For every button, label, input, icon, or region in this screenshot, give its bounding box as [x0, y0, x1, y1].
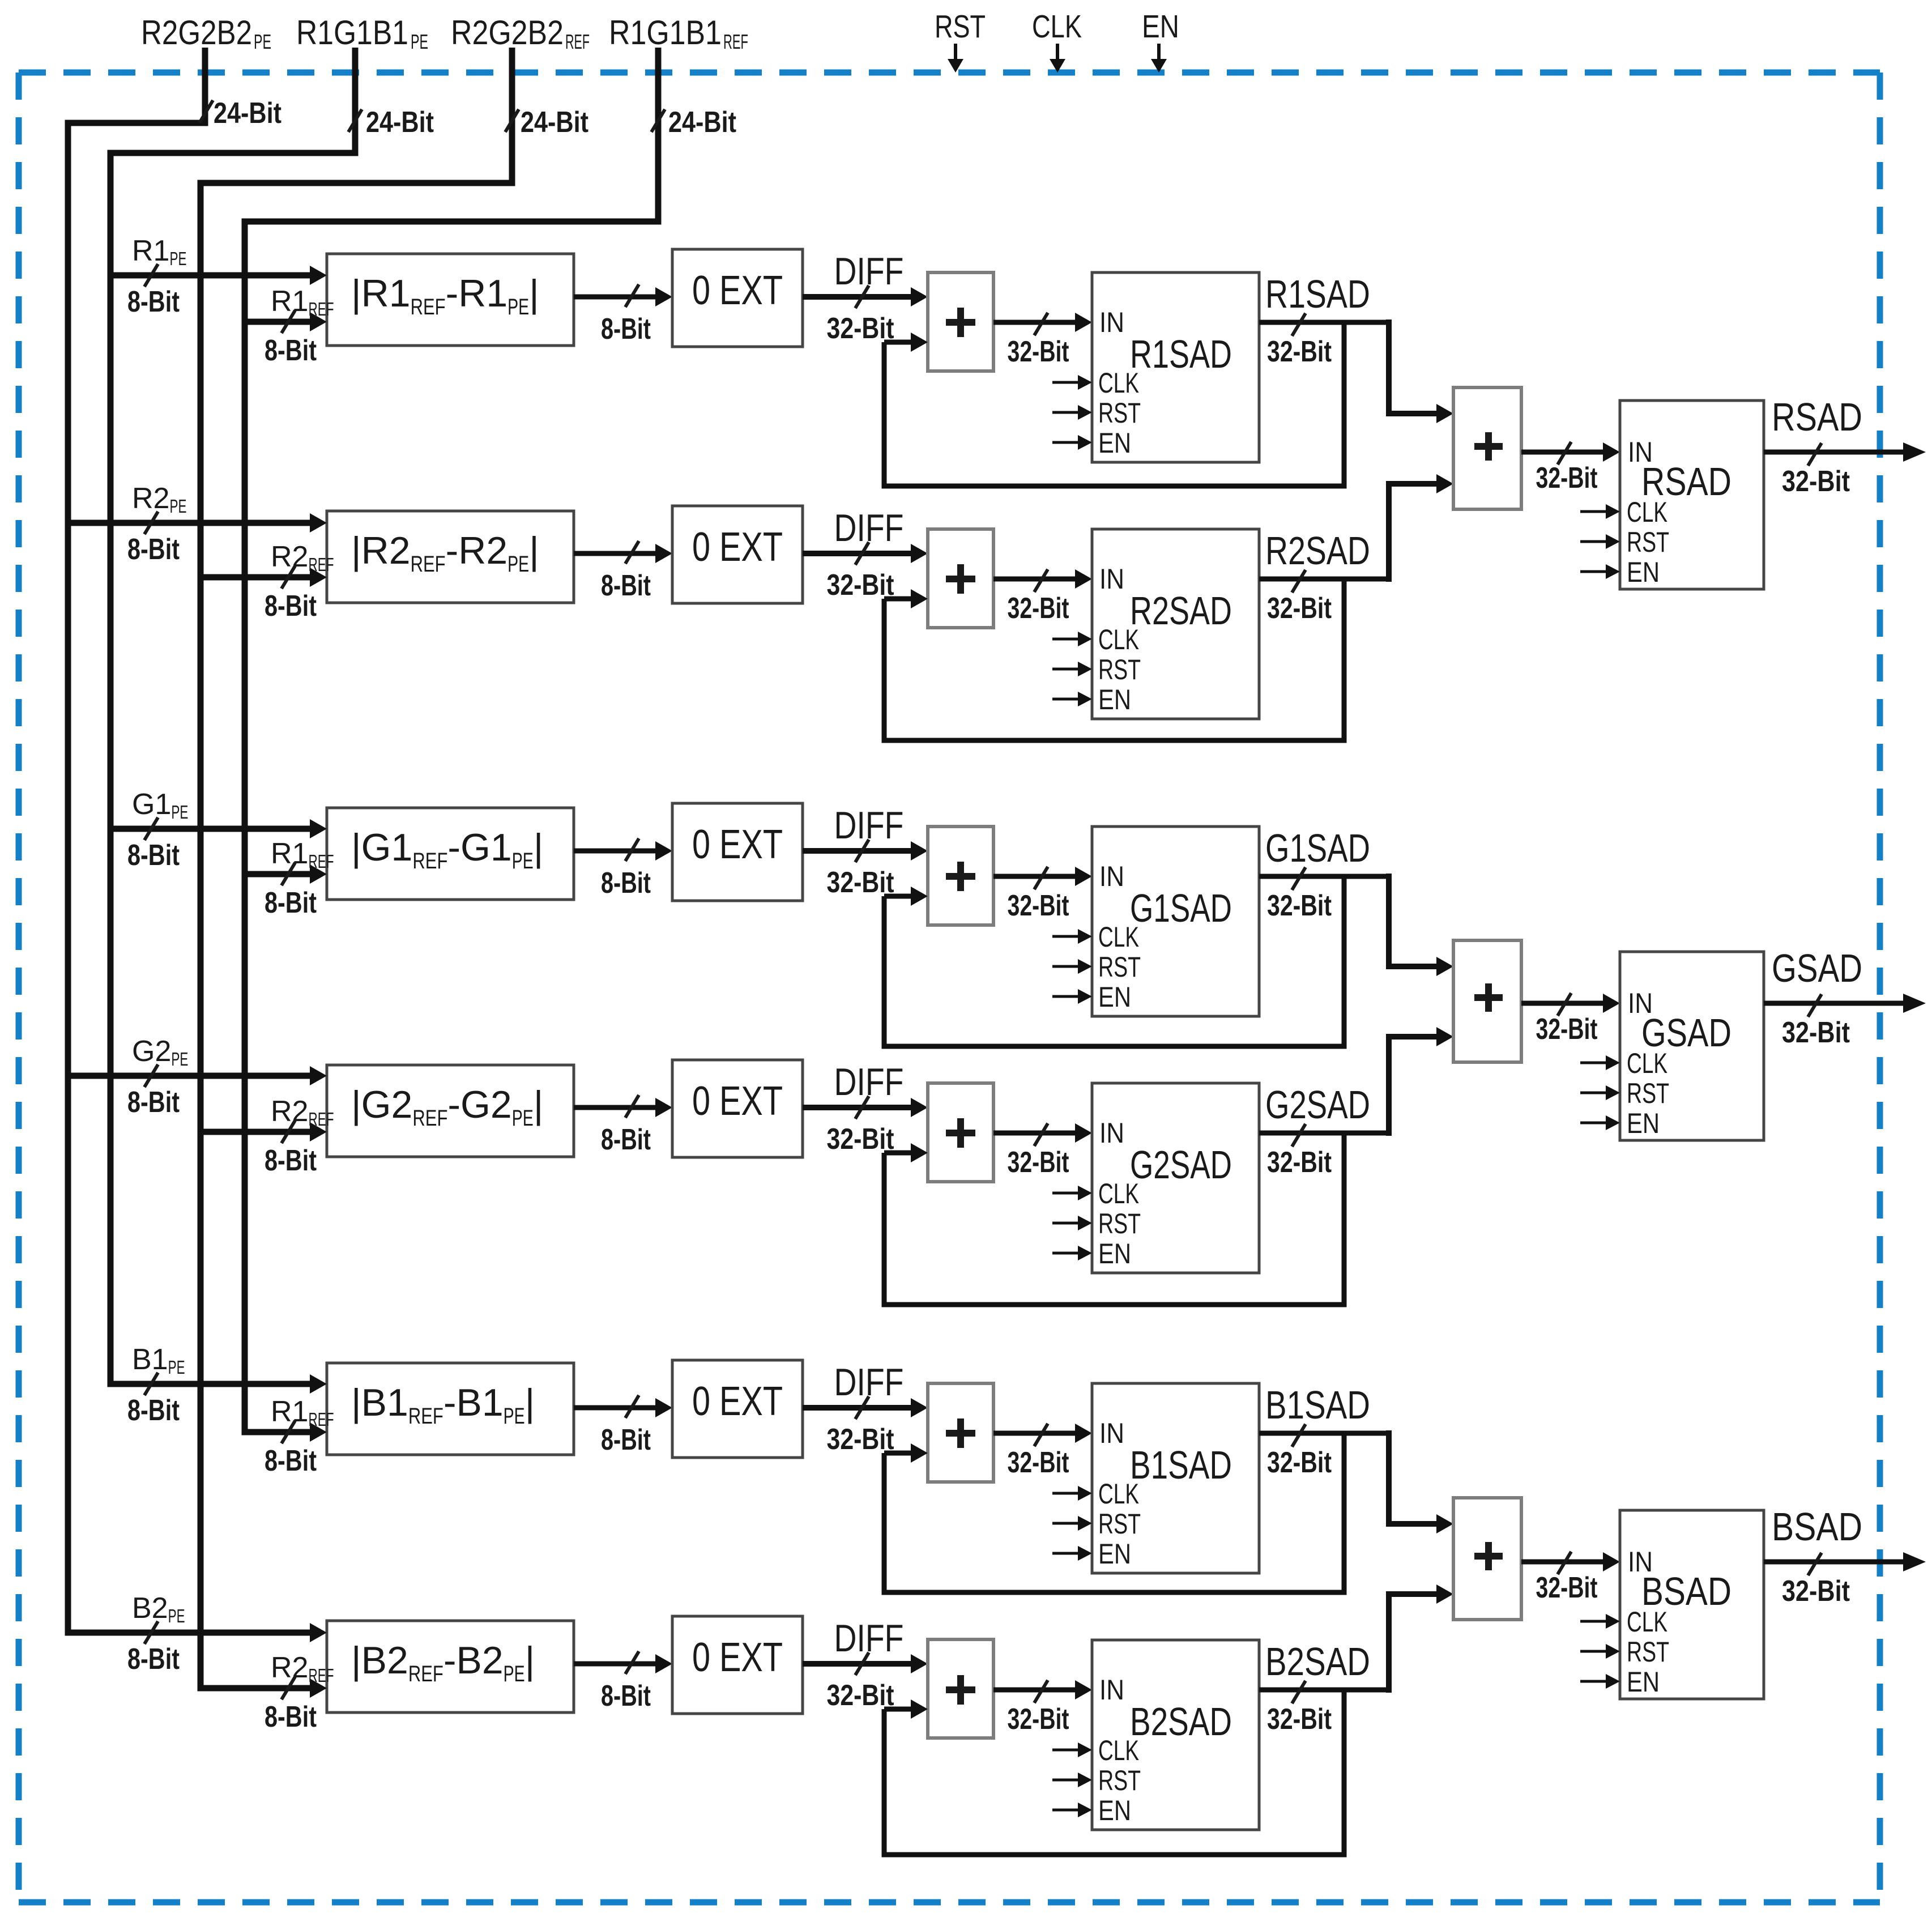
adder + (R1 accumulate): [928, 272, 993, 371]
register block GSAD final accumulator: [1620, 952, 1764, 1140]
label R2REF 8-Bit: [265, 540, 334, 623]
wire CLK stub into RSAD: [1580, 504, 1620, 519]
svg-text:EN: EN: [1098, 684, 1131, 715]
wire R2SAD output 32-Bit: [1259, 529, 1392, 625]
svg-text:24-Bit: 24-Bit: [521, 106, 588, 139]
label B2PE 8-Bit: [127, 1592, 185, 1676]
svg-text:32-Bit: 32-Bit: [1267, 889, 1332, 922]
wire RST stub into R1SAD: [1052, 405, 1092, 420]
label R2PE 8-Bit: [127, 482, 186, 566]
svg-text:IN: IN: [1099, 563, 1124, 595]
svg-text:EN: EN: [1627, 1107, 1660, 1139]
wire R1REF from bus column to |G1REF-G1PE|: [242, 864, 327, 884]
svg-text:8-Bit: 8-Bit: [265, 1701, 317, 1733]
wire RST stub into B1SAD: [1052, 1516, 1092, 1531]
register block R1SAD accumulator: [1092, 272, 1259, 462]
wire bus R1G1B1REF entry (vertical drop, turn left, column down): [242, 48, 662, 1432]
svg-text:8-Bit: 8-Bit: [265, 1144, 317, 1177]
control input CLK: [1032, 8, 1082, 73]
svg-text:0 EXT: 0 EXT: [692, 1635, 783, 1680]
wire B2 difference 8-Bit to 0 EXT: [574, 1651, 672, 1712]
svg-text:8-Bit: 8-Bit: [601, 313, 651, 346]
svg-text:R1G1B1: R1G1B1: [609, 14, 722, 52]
svg-text:RST: RST: [1098, 397, 1141, 429]
svg-text:RST: RST: [1098, 951, 1141, 983]
wire DIFF (B1) 32-Bit to adder: [803, 1361, 928, 1456]
wire G1SAD to GSAD adder: [1386, 874, 1453, 976]
svg-text:RST: RST: [1098, 654, 1141, 685]
wire adder sum to B2SAD IN 32-Bit: [993, 1680, 1092, 1736]
block |G2REF-G2PE| absolute difference: [327, 1065, 574, 1157]
control input RST: [935, 8, 986, 73]
svg-text:8-Bit: 8-Bit: [265, 590, 317, 623]
label R1PE 8-Bit: [127, 235, 186, 318]
wire RST stub into GSAD: [1580, 1085, 1620, 1100]
block 0 EXT (B2 zero extend): [672, 1616, 803, 1714]
wire CLK stub into GSAD: [1580, 1055, 1620, 1070]
bus width tick and label 24-Bit (R2G2B2REF): [505, 106, 588, 139]
svg-text:EN: EN: [1098, 1795, 1131, 1826]
svg-text:REF: REF: [723, 30, 748, 53]
wire G1SAD output 32-Bit: [1259, 826, 1392, 922]
wire CLK stub into G2SAD: [1052, 1186, 1092, 1200]
svg-text:G2SAD: G2SAD: [1130, 1143, 1232, 1187]
svg-text:CLK: CLK: [1032, 8, 1082, 45]
register block BSAD final accumulator: [1620, 1510, 1764, 1699]
adder + (G1 accumulate): [928, 827, 993, 925]
wire bus R2G2B2PE entry (vertical drop, turn left, column down): [65, 48, 208, 1633]
svg-text:32-Bit: 32-Bit: [827, 1679, 894, 1712]
svg-text:RST: RST: [1098, 1508, 1141, 1540]
svg-text:32-Bit: 32-Bit: [1008, 1446, 1069, 1479]
svg-text:8-Bit: 8-Bit: [601, 867, 651, 900]
wire G1 difference 8-Bit to 0 EXT: [574, 838, 672, 900]
svg-text:32-Bit: 32-Bit: [1008, 1703, 1069, 1736]
svg-text:IN: IN: [1099, 1417, 1124, 1449]
block 0 EXT (G2 zero extend): [672, 1060, 803, 1157]
svg-text:PE: PE: [254, 30, 271, 53]
wire R2SAD to RSAD adder: [1386, 474, 1453, 582]
svg-text:RST: RST: [935, 8, 986, 45]
svg-text:CLK: CLK: [1627, 1606, 1667, 1638]
svg-text:24-Bit: 24-Bit: [668, 106, 736, 139]
svg-text:8-Bit: 8-Bit: [127, 533, 180, 566]
block 0 EXT (B1 zero extend): [672, 1360, 803, 1458]
register block G1SAD accumulator: [1092, 827, 1259, 1016]
svg-text:32-Bit: 32-Bit: [1267, 592, 1332, 625]
svg-text:0 EXT: 0 EXT: [692, 268, 783, 313]
bus width tick and label 24-Bit (R1G1B1PE): [348, 106, 434, 139]
wire CLK stub into B2SAD: [1052, 1743, 1092, 1757]
label G1PE 8-Bit: [127, 788, 188, 872]
label R1REF 8-Bit: [265, 1395, 334, 1477]
wire adder sum to G1SAD IN 32-Bit: [993, 867, 1092, 922]
wire adder sum to G2SAD IN 32-Bit: [993, 1123, 1092, 1179]
wire R1SAD output 32-Bit: [1259, 272, 1392, 368]
block |B2REF-B2PE| absolute difference: [327, 1621, 574, 1712]
wire G2SAD feedback loop to adder: [882, 1133, 1347, 1307]
wire RST stub into G2SAD: [1052, 1216, 1092, 1230]
adder + (BSAD combine): [1453, 1498, 1521, 1620]
block |R2REF-R2PE| absolute difference: [327, 511, 574, 603]
wire adder sum to B1SAD IN 32-Bit: [993, 1424, 1092, 1479]
svg-text:32-Bit: 32-Bit: [1536, 462, 1598, 495]
wire G2 difference 8-Bit to 0 EXT: [574, 1095, 672, 1156]
svg-text:8-Bit: 8-Bit: [265, 1445, 317, 1477]
wire B2SAD output 32-Bit: [1259, 1639, 1392, 1736]
wire B2SAD to BSAD adder: [1386, 1584, 1453, 1693]
wire R2REF from bus column to |B2REF-B2PE|: [198, 1679, 327, 1698]
wire RST stub into B2SAD: [1052, 1773, 1092, 1787]
wire R1SAD to RSAD adder: [1386, 320, 1453, 423]
svg-text:32-Bit: 32-Bit: [1782, 465, 1850, 498]
wire G2PE from bus column to |G2REF-G2PE|: [65, 1066, 327, 1085]
wire R1REF from bus column to |B1REF-B1PE|: [242, 1422, 327, 1442]
wire B2PE from bus column to |B2REF-B2PE|: [65, 1623, 327, 1642]
svg-text:32-Bit: 32-Bit: [1782, 1575, 1850, 1608]
label G2PE 8-Bit: [127, 1035, 188, 1119]
wire CLK stub into B1SAD: [1052, 1486, 1092, 1501]
svg-text:IN: IN: [1099, 860, 1124, 892]
svg-text:8-Bit: 8-Bit: [601, 1123, 651, 1156]
svg-text:8-Bit: 8-Bit: [265, 887, 317, 919]
svg-text:8-Bit: 8-Bit: [127, 1086, 180, 1119]
svg-text:R1SAD: R1SAD: [1265, 272, 1370, 316]
block |B1REF-B1PE| absolute difference: [327, 1363, 574, 1455]
svg-text:32-Bit: 32-Bit: [1267, 1703, 1332, 1736]
svg-text:R1SAD: R1SAD: [1130, 332, 1232, 376]
svg-text:RST: RST: [1627, 526, 1669, 558]
wire R2PE from bus column to |R2REF-R2PE|: [65, 513, 327, 532]
bus width tick and label 24-Bit (R1G1B1REF): [651, 106, 736, 139]
svg-text:0 EXT: 0 EXT: [692, 822, 783, 867]
wire EN stub into G2SAD: [1052, 1246, 1092, 1260]
wire DIFF (R1) 32-Bit to adder: [803, 250, 928, 345]
wire R1SAD feedback loop to adder: [882, 322, 1347, 489]
wire EN stub into RSAD: [1580, 564, 1620, 579]
wire R1REF from bus column to |R1REF-R1PE|: [242, 312, 327, 331]
svg-text:32-Bit: 32-Bit: [1536, 1013, 1598, 1046]
svg-text:32-Bit: 32-Bit: [827, 569, 894, 602]
svg-text:REF: REF: [565, 30, 590, 53]
wire G1PE from bus column to |G1REF-G1PE|: [108, 819, 327, 838]
wire R2 difference 8-Bit to 0 EXT: [574, 541, 672, 602]
svg-text:CLK: CLK: [1098, 921, 1139, 953]
svg-text:IN: IN: [1099, 306, 1124, 338]
svg-text:24-Bit: 24-Bit: [214, 97, 282, 130]
wire adder sum to BSAD IN 32-Bit: [1521, 1552, 1620, 1604]
input bus label R2G2B2REF: [451, 14, 590, 53]
wire EN stub into GSAD: [1580, 1115, 1620, 1130]
label B1PE 8-Bit: [127, 1343, 185, 1427]
adder + (B2 accumulate): [928, 1639, 993, 1738]
wire adder sum to R1SAD IN 32-Bit: [993, 313, 1092, 368]
wire DIFF (R2) 32-Bit to adder: [803, 506, 928, 602]
wire RST stub into G1SAD: [1052, 959, 1092, 974]
svg-text:IN: IN: [1099, 1117, 1124, 1149]
wire DIFF (G1) 32-Bit to adder: [803, 804, 928, 899]
svg-text:32-Bit: 32-Bit: [1008, 1146, 1069, 1179]
wire RST stub into RSAD: [1580, 534, 1620, 549]
wire G2SAD to GSAD adder: [1386, 1027, 1453, 1136]
register block R2SAD accumulator: [1092, 529, 1259, 719]
svg-text:8-Bit: 8-Bit: [127, 1394, 180, 1427]
block |R1REF-R1PE| absolute difference: [327, 254, 574, 346]
wire B1SAD feedback loop to adder: [882, 1433, 1347, 1595]
block 0 EXT (G1 zero extend): [672, 803, 803, 901]
svg-text:32-Bit: 32-Bit: [1267, 1146, 1332, 1179]
svg-text:CLK: CLK: [1627, 496, 1667, 528]
svg-text:R2G2B2: R2G2B2: [451, 14, 564, 52]
svg-text:GSAD: GSAD: [1772, 946, 1862, 990]
svg-text:8-Bit: 8-Bit: [601, 1424, 651, 1456]
svg-text:8-Bit: 8-Bit: [601, 1680, 651, 1712]
svg-text:EN: EN: [1098, 427, 1131, 459]
control input EN: [1142, 8, 1179, 73]
wire R1PE from bus column to |R1REF-R1PE|: [108, 266, 327, 285]
svg-text:0 EXT: 0 EXT: [692, 1379, 783, 1424]
svg-text:B2SAD: B2SAD: [1130, 1699, 1232, 1744]
svg-text:RSAD: RSAD: [1772, 395, 1862, 439]
svg-text:8-Bit: 8-Bit: [127, 1643, 180, 1676]
svg-text:R2SAD: R2SAD: [1130, 589, 1232, 633]
svg-text:EN: EN: [1627, 1666, 1660, 1698]
output wire RSAD 32-Bit leaving module: [1764, 395, 1926, 498]
svg-text:B1SAD: B1SAD: [1265, 1383, 1370, 1427]
svg-text:BSAD: BSAD: [1772, 1505, 1862, 1549]
svg-text:RST: RST: [1098, 1765, 1141, 1796]
output wire BSAD 32-Bit leaving module: [1764, 1505, 1926, 1608]
svg-text:32-Bit: 32-Bit: [1008, 592, 1069, 625]
register block G2SAD accumulator: [1092, 1083, 1259, 1273]
svg-text:EN: EN: [1098, 1238, 1131, 1270]
input bus label R1G1B1PE: [296, 14, 428, 53]
wire CLK stub into G1SAD: [1052, 929, 1092, 944]
wire adder sum to GSAD IN 32-Bit: [1521, 993, 1620, 1046]
svg-text:32-Bit: 32-Bit: [827, 312, 894, 345]
wire G1SAD feedback loop to adder: [882, 876, 1347, 1049]
label R2REF 8-Bit: [265, 1651, 334, 1733]
adder + (GSAD combine): [1453, 940, 1521, 1062]
svg-text:EN: EN: [1627, 556, 1660, 588]
svg-text:G1SAD: G1SAD: [1130, 886, 1232, 930]
input bus label R2G2B2PE: [141, 14, 271, 53]
svg-text:EN: EN: [1142, 8, 1179, 45]
svg-text:CLK: CLK: [1098, 624, 1139, 655]
svg-text:R2SAD: R2SAD: [1265, 529, 1370, 573]
wire CLK stub into BSAD: [1580, 1614, 1620, 1629]
wire EN stub into R1SAD: [1052, 435, 1092, 450]
register block B2SAD accumulator: [1092, 1640, 1259, 1830]
svg-text:R1G1B1: R1G1B1: [296, 14, 408, 52]
wire EN stub into B1SAD: [1052, 1546, 1092, 1561]
svg-text:0 EXT: 0 EXT: [692, 525, 783, 570]
svg-text:8-Bit: 8-Bit: [127, 286, 180, 318]
wire R2REF from bus column to |G2REF-G2PE|: [198, 1122, 327, 1141]
svg-text:24-Bit: 24-Bit: [366, 106, 434, 139]
wire CLK stub into R1SAD: [1052, 375, 1092, 390]
svg-text:32-Bit: 32-Bit: [827, 866, 894, 899]
label R1REF 8-Bit: [265, 837, 334, 919]
wire adder sum to RSAD IN 32-Bit: [1521, 442, 1620, 495]
svg-text:8-Bit: 8-Bit: [265, 334, 317, 367]
svg-text:G1SAD: G1SAD: [1265, 826, 1370, 870]
input bus label R1G1B1REF: [609, 14, 748, 53]
label R2REF 8-Bit: [265, 1095, 334, 1177]
svg-text:IN: IN: [1099, 1674, 1124, 1706]
wire EN stub into BSAD: [1580, 1674, 1620, 1689]
wire B1PE from bus column to |B1REF-B1PE|: [108, 1374, 327, 1394]
svg-text:RST: RST: [1098, 1208, 1141, 1239]
wire adder sum to R2SAD IN 32-Bit: [993, 569, 1092, 625]
wire G2SAD output 32-Bit: [1259, 1083, 1392, 1179]
label R1REF 8-Bit: [265, 285, 334, 367]
svg-text:8-Bit: 8-Bit: [601, 569, 651, 602]
bus width tick and label 24-Bit (R2G2B2PE): [199, 97, 282, 130]
register block B1SAD accumulator: [1092, 1383, 1259, 1573]
wire R2SAD feedback loop to adder: [882, 579, 1347, 743]
wire DIFF (G2) 32-Bit to adder: [803, 1060, 928, 1156]
svg-text:RST: RST: [1627, 1077, 1669, 1109]
wire R1 difference 8-Bit to 0 EXT: [574, 284, 672, 346]
output wire GSAD 32-Bit leaving module: [1764, 946, 1926, 1049]
wire DIFF (B2) 32-Bit to adder: [803, 1617, 928, 1712]
adder + (R2 accumulate): [928, 529, 993, 628]
svg-text:EN: EN: [1098, 1538, 1131, 1570]
svg-text:B2SAD: B2SAD: [1265, 1639, 1370, 1684]
svg-text:G2SAD: G2SAD: [1265, 1083, 1370, 1127]
svg-text:32-Bit: 32-Bit: [1782, 1016, 1850, 1049]
wire CLK stub into R2SAD: [1052, 632, 1092, 646]
wire B1SAD output 32-Bit: [1259, 1383, 1392, 1479]
svg-text:PE: PE: [411, 30, 428, 53]
wire EN stub into G1SAD: [1052, 989, 1092, 1004]
svg-text:32-Bit: 32-Bit: [827, 1423, 894, 1456]
wire B1SAD to BSAD adder: [1386, 1430, 1453, 1533]
adder + (G2 accumulate): [928, 1083, 993, 1182]
wire bus R1G1B1PE entry (vertical drop, turn left, column down): [108, 48, 359, 1384]
wire B1 difference 8-Bit to 0 EXT: [574, 1395, 672, 1456]
svg-text:32-Bit: 32-Bit: [1008, 889, 1069, 922]
wire B2SAD feedback loop to adder: [882, 1690, 1347, 1858]
wire R2REF from bus column to |R2REF-R2PE|: [198, 568, 327, 587]
wire RST stub into R2SAD: [1052, 662, 1092, 676]
wire EN stub into B2SAD: [1052, 1803, 1092, 1817]
svg-text:CLK: CLK: [1098, 1735, 1139, 1766]
adder + (B1 accumulate): [928, 1383, 993, 1482]
svg-text:R2G2B2: R2G2B2: [141, 14, 252, 52]
svg-text:B1SAD: B1SAD: [1130, 1443, 1232, 1487]
svg-text:EN: EN: [1098, 981, 1131, 1013]
svg-text:CLK: CLK: [1098, 367, 1139, 399]
wire bus R2G2B2REF entry (vertical drop, turn left, column down): [198, 48, 515, 1688]
svg-text:32-Bit: 32-Bit: [1536, 1571, 1598, 1604]
block |G1REF-G1PE| absolute difference: [327, 808, 574, 900]
svg-text:CLK: CLK: [1098, 1478, 1139, 1510]
block 0 EXT (R2 zero extend): [672, 506, 803, 603]
svg-text:RST: RST: [1627, 1636, 1669, 1668]
svg-text:CLK: CLK: [1098, 1178, 1139, 1209]
register block RSAD final accumulator: [1620, 401, 1764, 589]
svg-text:32-Bit: 32-Bit: [827, 1123, 894, 1156]
svg-text:0 EXT: 0 EXT: [692, 1079, 783, 1124]
wire RST stub into BSAD: [1580, 1644, 1620, 1659]
svg-text:CLK: CLK: [1627, 1047, 1667, 1079]
svg-text:32-Bit: 32-Bit: [1008, 335, 1069, 368]
svg-text:32-Bit: 32-Bit: [1267, 335, 1332, 368]
svg-text:8-Bit: 8-Bit: [127, 839, 180, 872]
adder + (RSAD combine): [1453, 387, 1521, 509]
svg-text:32-Bit: 32-Bit: [1267, 1446, 1332, 1479]
wire EN stub into R2SAD: [1052, 692, 1092, 706]
block 0 EXT (R1 zero extend): [672, 249, 803, 347]
